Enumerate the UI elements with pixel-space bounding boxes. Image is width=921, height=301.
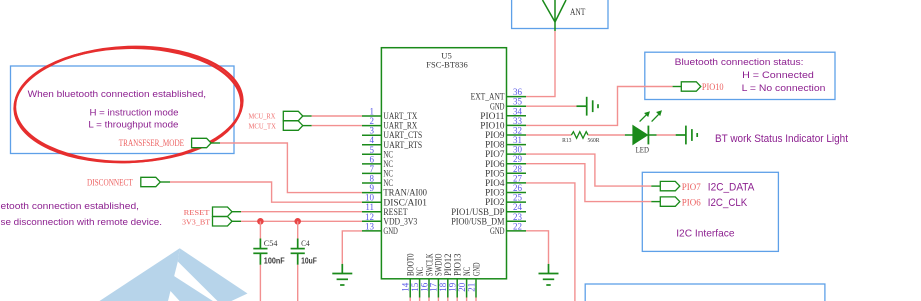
wire RESET to pin 11 bbox=[241, 211, 362, 213]
svg-text:PIO0/USB_DM: PIO0/USB_DM bbox=[451, 216, 504, 226]
wire resistor to LED bbox=[588, 134, 625, 136]
connector PIO6 I2C_CLK bbox=[660, 197, 680, 206]
svg-text:26: 26 bbox=[513, 183, 523, 193]
svg-text:DISCONNECT: DISCONNECT bbox=[87, 178, 133, 188]
pin 13 GND stub bbox=[362, 230, 381, 232]
annotation box: bluetooth note bbox=[11, 66, 235, 154]
wire 3V3_BT to pin 12 bbox=[241, 220, 362, 222]
pin 15 NC stub bbox=[419, 279, 421, 298]
pin 7 NC stub bbox=[362, 172, 381, 174]
svg-text:se disconnection with remote d: se disconnection with remote device. bbox=[1, 217, 163, 228]
svg-text:PIO7: PIO7 bbox=[682, 182, 701, 192]
svg-text:NC: NC bbox=[383, 159, 393, 169]
svg-text:LED: LED bbox=[636, 145, 649, 155]
svg-text:NC: NC bbox=[383, 149, 393, 159]
wire antenna to pin 36 EXT_ANT bbox=[526, 31, 555, 97]
svg-text:33: 33 bbox=[513, 116, 523, 126]
pin 1 UART_TX stub bbox=[362, 115, 381, 117]
pin 20 wire down bbox=[466, 298, 468, 301]
svg-text:UART_CTS: UART_CTS bbox=[383, 130, 422, 140]
svg-text:10uF: 10uF bbox=[301, 256, 317, 266]
ground (pin 35) bbox=[577, 97, 599, 116]
svg-text:5: 5 bbox=[370, 145, 375, 155]
svg-text:31: 31 bbox=[513, 135, 522, 145]
pin 28 PIO5 stub bbox=[507, 172, 527, 174]
wire pin 35 GND to ground bbox=[526, 105, 577, 107]
junction on 3V3_BT net bbox=[294, 218, 301, 225]
pin 11 RESET stub bbox=[362, 211, 381, 213]
pin 21 wire down bbox=[475, 298, 477, 301]
pin 18 PIO12 stub bbox=[447, 279, 449, 298]
svg-text:PIO6: PIO6 bbox=[485, 159, 505, 169]
capacitor C54 wire down bbox=[259, 265, 261, 301]
svg-text:PIO11: PIO11 bbox=[480, 111, 505, 121]
svg-text:12: 12 bbox=[365, 212, 374, 222]
pin 30 PIO7 stub bbox=[507, 153, 527, 155]
connector PIO7 I2C_DATA bbox=[660, 181, 680, 190]
svg-text:R13: R13 bbox=[562, 137, 572, 144]
pin 10 DISC/AI01 stub bbox=[362, 201, 381, 203]
pin 17 SWDIO stub bbox=[437, 279, 439, 298]
svg-text:VDD_3V3: VDD_3V3 bbox=[383, 216, 417, 226]
svg-text:I2C_DATA: I2C_DATA bbox=[708, 181, 755, 193]
wire MCU_TX to pin 2 bbox=[312, 125, 362, 127]
wire pin 22 GND to ground bbox=[526, 231, 549, 264]
antenna symbol bbox=[543, 0, 567, 31]
pin 17 wire down bbox=[437, 298, 439, 301]
pin 29 PIO6 stub bbox=[507, 163, 527, 165]
svg-text:560R: 560R bbox=[588, 137, 600, 144]
svg-text:TRAN/AI00: TRAN/AI00 bbox=[383, 188, 427, 198]
svg-text:6: 6 bbox=[370, 154, 375, 164]
pin 26 PIO3 stub bbox=[507, 192, 527, 194]
connector RESET bbox=[213, 207, 233, 216]
svg-text:3: 3 bbox=[370, 126, 375, 136]
stub PIO10 bbox=[673, 86, 682, 88]
LED diode symbol bbox=[633, 126, 657, 145]
stub PIO6 bbox=[651, 201, 660, 203]
bottom right box (cut off) bbox=[585, 284, 825, 301]
stub RESET bbox=[232, 211, 241, 213]
wire pin 30 PIO7 to I2C_DATA bbox=[526, 154, 651, 186]
svg-text:PIO8: PIO8 bbox=[485, 140, 505, 150]
pin 34 PIO11 stub bbox=[507, 115, 527, 117]
pin 16 wire down bbox=[428, 298, 430, 301]
svg-text:I2C_CLK: I2C_CLK bbox=[708, 197, 748, 209]
pin 23 PIO0/USB_DM stub bbox=[507, 220, 527, 222]
svg-text:MCU_RX: MCU_RX bbox=[249, 111, 276, 120]
svg-text:PIO2: PIO2 bbox=[485, 197, 505, 207]
pin 9 TRAN/AI00 stub bbox=[362, 192, 381, 194]
connector PIO10 (status) bbox=[681, 82, 701, 91]
svg-text:23: 23 bbox=[513, 212, 523, 222]
svg-text:24: 24 bbox=[513, 202, 523, 212]
svg-text:FSC-BT836: FSC-BT836 bbox=[426, 60, 468, 70]
svg-text:RESET: RESET bbox=[383, 207, 408, 217]
pin 12 VDD_3V3 stub bbox=[362, 220, 381, 222]
stub MCU_RX bbox=[303, 115, 312, 117]
wire DISCONNECT to pin 10 bbox=[170, 182, 362, 202]
ground (pin 22) bbox=[539, 264, 559, 285]
pin 22 GND stub bbox=[507, 230, 527, 232]
svg-text:2: 2 bbox=[370, 116, 375, 126]
wire junction to capacitor C4 bbox=[297, 221, 299, 238]
svg-text:1: 1 bbox=[370, 107, 375, 117]
svg-text:C54: C54 bbox=[264, 239, 278, 248]
svg-text:UART_RX: UART_RX bbox=[383, 121, 417, 131]
connector TRANSFSER_MODE bbox=[192, 138, 212, 147]
svg-text:100nF: 100nF bbox=[264, 256, 285, 266]
svg-text:NC: NC bbox=[383, 178, 393, 188]
pin 25 PIO2 stub bbox=[507, 201, 527, 203]
I2C Interface box bbox=[642, 172, 778, 251]
svg-text:DISC/AI01: DISC/AI01 bbox=[383, 197, 427, 207]
pin 16 SWCLK stub bbox=[428, 279, 430, 298]
wire pin 13 GND to ground bbox=[342, 231, 362, 264]
stub TRANSFSER_MODE bbox=[211, 142, 220, 144]
svg-text:TRANSFSER_MODE: TRANSFSER_MODE bbox=[119, 138, 184, 148]
connector MCU_RX bbox=[283, 111, 303, 120]
pin 4 UART_RTS stub bbox=[362, 144, 381, 146]
svg-text:32: 32 bbox=[513, 126, 522, 136]
ground (LED) bbox=[676, 126, 698, 145]
svg-text:etooth connection established,: etooth connection established, bbox=[1, 201, 140, 212]
svg-text:34: 34 bbox=[513, 106, 523, 116]
svg-text:11: 11 bbox=[365, 202, 374, 212]
connector 3V3_BT bbox=[213, 217, 233, 226]
svg-text:I2C Interface: I2C Interface bbox=[676, 227, 735, 239]
pin 15 wire down bbox=[419, 298, 421, 301]
pin 18 wire down bbox=[447, 298, 449, 301]
capacitor C4 bbox=[291, 239, 305, 265]
pin 35 GND stub bbox=[507, 105, 527, 107]
svg-text:Bluetooth connection status:: Bluetooth connection status: bbox=[675, 57, 804, 68]
svg-text:C4: C4 bbox=[301, 239, 310, 248]
pin 5 NC stub bbox=[362, 153, 381, 155]
svg-text:3V3_BT: 3V3_BT bbox=[182, 218, 211, 227]
svg-text:NC: NC bbox=[383, 169, 393, 179]
watermark logo bbox=[100, 248, 248, 301]
pin 19 PIO13 stub bbox=[456, 279, 458, 298]
svg-text:PIO3: PIO3 bbox=[485, 188, 505, 198]
wire TRANSFSER_MODE to pin 9 bbox=[220, 143, 362, 193]
connector DISCONNECT bbox=[141, 177, 161, 186]
svg-text:GND: GND bbox=[490, 226, 505, 236]
svg-text:PIO10: PIO10 bbox=[480, 121, 505, 131]
junction on 3V3_BT net bbox=[257, 218, 264, 225]
wire junction to capacitor C54 bbox=[259, 221, 261, 238]
Bluetooth connection status box bbox=[645, 52, 835, 99]
svg-text:L = No connection: L = No connection bbox=[742, 83, 826, 94]
capacitor C54 bbox=[253, 239, 267, 265]
svg-text:27: 27 bbox=[513, 173, 523, 183]
wire LED to ground bbox=[657, 134, 676, 136]
IC U5 FSC-BT836 body bbox=[381, 48, 506, 279]
pin 32 PIO9 stub bbox=[507, 134, 527, 136]
pin 33 PIO10 stub bbox=[507, 124, 527, 126]
pin 21 GND stub bbox=[475, 279, 477, 298]
LED arrows bbox=[640, 111, 661, 121]
pin 8 NC stub bbox=[362, 182, 381, 184]
svg-text:EXT_ANT: EXT_ANT bbox=[471, 92, 505, 102]
LED anode stub bbox=[625, 134, 633, 136]
wire pin 27 PIO4 down bbox=[526, 183, 575, 301]
svg-text:BT work Status Indicator Ligh: BT work Status Indicator Light bbox=[715, 133, 848, 145]
svg-text:PIO7: PIO7 bbox=[485, 149, 505, 159]
svg-text:PIO9: PIO9 bbox=[485, 130, 505, 140]
svg-text:GND: GND bbox=[383, 226, 398, 236]
pin 14 BOOT0 stub bbox=[409, 279, 411, 298]
svg-text:7: 7 bbox=[370, 164, 375, 174]
svg-text:H = instruction mode: H = instruction mode bbox=[90, 107, 179, 118]
svg-text:13: 13 bbox=[365, 221, 375, 231]
ANT box bbox=[512, 0, 608, 29]
svg-text:PIO4: PIO4 bbox=[485, 178, 505, 188]
svg-text:L = throughput mode: L = throughput mode bbox=[88, 119, 178, 130]
svg-text:21: 21 bbox=[466, 283, 476, 292]
capacitor C4 wire down bbox=[297, 265, 299, 301]
svg-text:PIO5: PIO5 bbox=[485, 168, 505, 178]
pin 20 NC stub bbox=[466, 279, 468, 298]
wire pin 33 PIO10 to status connector bbox=[526, 87, 673, 126]
svg-text:GND: GND bbox=[490, 101, 505, 111]
stub DISCONNECT bbox=[160, 181, 170, 183]
svg-text:25: 25 bbox=[513, 193, 523, 203]
svg-text:MCU_TX: MCU_TX bbox=[249, 121, 277, 130]
svg-text:29: 29 bbox=[513, 154, 523, 164]
pin 27 PIO4 stub bbox=[507, 182, 527, 184]
stub 3V3_BT bbox=[232, 220, 241, 222]
svg-text:8: 8 bbox=[370, 174, 375, 184]
wire MCU_RX to pin 1 bbox=[312, 115, 362, 117]
svg-text:PIO6: PIO6 bbox=[682, 197, 701, 207]
pin 31 PIO8 stub bbox=[507, 144, 527, 146]
svg-text:PIO10: PIO10 bbox=[702, 82, 724, 92]
svg-text:GND: GND bbox=[471, 262, 481, 276]
connector MCU_TX bbox=[283, 121, 303, 130]
svg-text:22: 22 bbox=[513, 221, 522, 231]
red ellipse annotation bbox=[12, 42, 245, 167]
svg-text:10: 10 bbox=[365, 193, 375, 203]
pin 36 EXT_ANT stub bbox=[507, 96, 527, 98]
svg-text:9: 9 bbox=[370, 183, 375, 193]
svg-text:ANT: ANT bbox=[570, 8, 585, 18]
svg-text:PIO1/USB_DP: PIO1/USB_DP bbox=[451, 207, 504, 217]
svg-text:UART_TX: UART_TX bbox=[383, 111, 417, 121]
stub MCU_TX bbox=[303, 125, 312, 127]
svg-text:UART_RTS: UART_RTS bbox=[383, 140, 422, 150]
resistor R13 560R bbox=[571, 132, 588, 139]
pin 14 wire down bbox=[409, 298, 411, 301]
wire pin 29 PIO6 to I2C_CLK bbox=[526, 164, 651, 202]
svg-text:H = Connected: H = Connected bbox=[742, 70, 814, 81]
svg-text:When bluetooth connection esta: When bluetooth connection established, bbox=[28, 89, 207, 100]
pin 24 PIO1/USB_DP stub bbox=[507, 211, 527, 213]
pin 19 wire down bbox=[456, 298, 458, 301]
stub PIO7 bbox=[651, 185, 660, 187]
ground (pin 13) bbox=[332, 264, 352, 285]
svg-text:RESET: RESET bbox=[184, 208, 210, 217]
pin 6 NC stub bbox=[362, 163, 381, 165]
svg-text:4: 4 bbox=[370, 135, 375, 145]
svg-text:30: 30 bbox=[513, 145, 523, 155]
svg-text:35: 35 bbox=[513, 97, 523, 107]
pin 2 UART_RX stub bbox=[362, 125, 381, 127]
svg-text:28: 28 bbox=[513, 164, 523, 174]
pin 3 UART_CTS stub bbox=[362, 134, 381, 136]
svg-text:36: 36 bbox=[513, 87, 523, 97]
wire pin 32 PIO9 to resistor bbox=[526, 134, 571, 136]
